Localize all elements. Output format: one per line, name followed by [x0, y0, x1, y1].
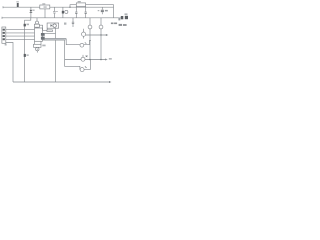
label R2: [78, 1, 81, 2]
fuse F1 dark body: [17, 3, 19, 7]
wire rail V+ top: [3, 6, 114, 8]
wire V5 cap C2 branch: [62, 7, 64, 18]
label above jumper: [125, 13, 128, 15]
tick at W4 arrow: [105, 59, 107, 61]
resistor small box below opto: [47, 30, 53, 32]
wire IC bottom to R3: [35, 41, 41, 44]
wire loop to Q3: [66, 39, 91, 45]
label cap C4 right: [105, 10, 108, 12]
wire rail ground bottom: [13, 81, 110, 83]
wire bus band: [45, 38, 67, 40]
jumper JP1 dark pad: [121, 16, 124, 19]
diode D3 dark body: [24, 24, 26, 27]
diode D2 dark body: [30, 10, 33, 12]
buzzer LS1 box: [34, 24, 39, 27]
wire W5 output arrow net: [86, 34, 107, 36]
label net name 1 top right: [111, 23, 114, 25]
tick at ground arrow: [108, 81, 110, 83]
label R3: [42, 45, 45, 47]
junction node top branch: [69, 7, 70, 8]
wire top branch through R2: [70, 5, 114, 18]
wire rail mid: [2, 17, 121, 19]
wire V9 transistor Q2 branch: [100, 18, 102, 60]
jumper JP2 dark pad: [125, 16, 128, 19]
wire V15 opto left leg: [46, 28, 48, 30]
wire cap C4 stub top: [101, 7, 103, 14]
cap C2 dark body: [62, 11, 64, 14]
wire V7 R2 right leg with cap: [85, 6, 87, 17]
LED circle in opto: [53, 24, 56, 27]
wire IC right to V14: [45, 33, 56, 35]
arrow W5 end: [106, 34, 108, 36]
LED arrow inside opto U2: [50, 25, 52, 27]
connector pin 2 pad: [3, 32, 5, 34]
IC U1 module box: [35, 28, 43, 41]
wire V2 diode branch: [30, 7, 32, 18]
label right of W4 arrow: [109, 58, 112, 60]
arrow ground rail end: [110, 81, 112, 83]
label cap C4 left: [98, 10, 100, 11]
capacitor C1 plates: [53, 12, 56, 14]
label value inside R1: [44, 6, 47, 7]
resistor R1: [40, 5, 50, 9]
wire V4 cap C1 branch: [53, 7, 55, 18]
capacitor C3 plates x73: [72, 22, 74, 23]
transistor Q4 circle: [82, 32, 86, 36]
transistor Q1 circle: [88, 25, 92, 29]
label between C1 C2: [56, 11, 58, 12]
indicator circle below R3: [36, 47, 39, 50]
label pin1 connector: [5, 44, 7, 46]
resistor R3: [34, 44, 42, 47]
buzzer LS1 circle: [36, 21, 39, 24]
arrow W4 end: [106, 59, 108, 61]
junction node W5-V9: [100, 34, 101, 35]
wire V14 opto emitter to ground: [55, 28, 57, 82]
wire V16 to lower loop: [65, 40, 91, 70]
capacitor C7 plates on R2 right leg: [85, 12, 87, 13]
connector pin 1 pad: [3, 29, 5, 31]
label left of R1: [32, 10, 34, 11]
label D4: [27, 54, 29, 56]
resistor R2: [76, 3, 85, 6]
polarity circle beside C2: [65, 10, 68, 13]
label D3: [27, 24, 30, 26]
wire cap stub x73: [72, 18, 74, 27]
connector pin 3 pad: [3, 35, 5, 37]
wire buzzer stub: [36, 18, 38, 28]
wire bus lower: [43, 39, 65, 41]
tick at W5 arrow: [105, 34, 107, 36]
optocoupler U2 box: [47, 23, 59, 28]
connector pin 4 pad: [3, 38, 5, 40]
emitter tick Q3: [85, 42, 87, 44]
wire V8 transistor Q1 branch: [89, 18, 91, 60]
wire buzzer to opto: [39, 25, 47, 30]
crystal X1 dark block on U1 upper: [41, 33, 45, 36]
wire Q5 base stub: [82, 55, 84, 57]
transistor Q2 circle: [99, 25, 103, 29]
emitter tick Q6: [85, 66, 87, 68]
capacitor C4 dark plates: [101, 9, 104, 12]
wire connector pin 1: [6, 29, 35, 31]
node terminal left of mid rail: [1, 17, 3, 19]
jumper JP0 light pad: [118, 18, 120, 21]
junction node W4-V9: [100, 59, 102, 61]
connector CN1 body: [2, 27, 6, 43]
transistor Q6 circle lower loop: [80, 68, 84, 72]
label F1: [16, 1, 19, 2]
capacitor C6 plates on R2 left leg: [75, 12, 77, 13]
emitter tick Q5: [86, 55, 88, 57]
label net name 2 top right: [119, 24, 122, 26]
label R1: [42, 3, 45, 4]
wire connector pin 3: [6, 35, 35, 37]
wire connector pin 2: [6, 32, 35, 34]
wire connector pin 4: [6, 38, 35, 40]
transistor Q3 circle: [80, 43, 84, 47]
wire W4 driver output: [65, 59, 106, 61]
label 2 near x64: [64, 23, 66, 25]
wire V3 below R1: [44, 9, 46, 18]
diode D4 dark body: [24, 54, 26, 57]
node terminal left of top rail: [2, 6, 4, 8]
wire bus upper: [45, 38, 66, 40]
wire V12 diode chain vertical with top corner: [25, 18, 31, 82]
wire R3 top legs: [36, 51, 38, 53]
wire Q4 stub up: [83, 29, 85, 39]
crystal X1 dark block on U1 lower: [41, 37, 45, 40]
transistor Q5 circle on W4: [81, 57, 85, 61]
junction node W4-V8: [89, 59, 91, 61]
wire V13 from connector to ground: [6, 43, 13, 83]
wire V6 R2 left leg with cap: [75, 6, 77, 17]
